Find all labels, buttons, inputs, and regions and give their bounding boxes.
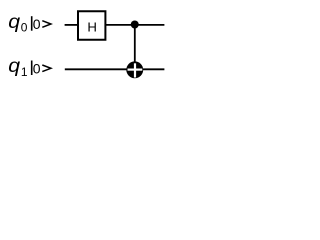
wire q1 (65, 68, 165, 70)
CNOT target circle on q1 (126, 61, 143, 78)
CNOT target plus vertical (134, 63, 136, 77)
qubit label q0 (8, 12, 27, 35)
qubit label q1 (8, 56, 28, 79)
svg-text:q: q (8, 56, 21, 77)
svg-text:H: H (87, 19, 97, 34)
svg-text:0: 0 (33, 16, 41, 32)
control dot on q0 (131, 21, 139, 29)
svg-text:0: 0 (21, 21, 28, 35)
svg-text:0: 0 (33, 60, 41, 76)
wire q0 right segment (106, 24, 165, 26)
wire q0 left stub (65, 24, 79, 26)
control vertical wire (134, 25, 136, 70)
ket |0> label q1 (32, 60, 51, 76)
ket |0> label q0 (32, 16, 51, 32)
svg-text:1: 1 (21, 65, 28, 79)
gate H box (78, 11, 105, 40)
CNOT target plus horizontal (128, 68, 143, 70)
svg-text:q: q (8, 12, 21, 33)
